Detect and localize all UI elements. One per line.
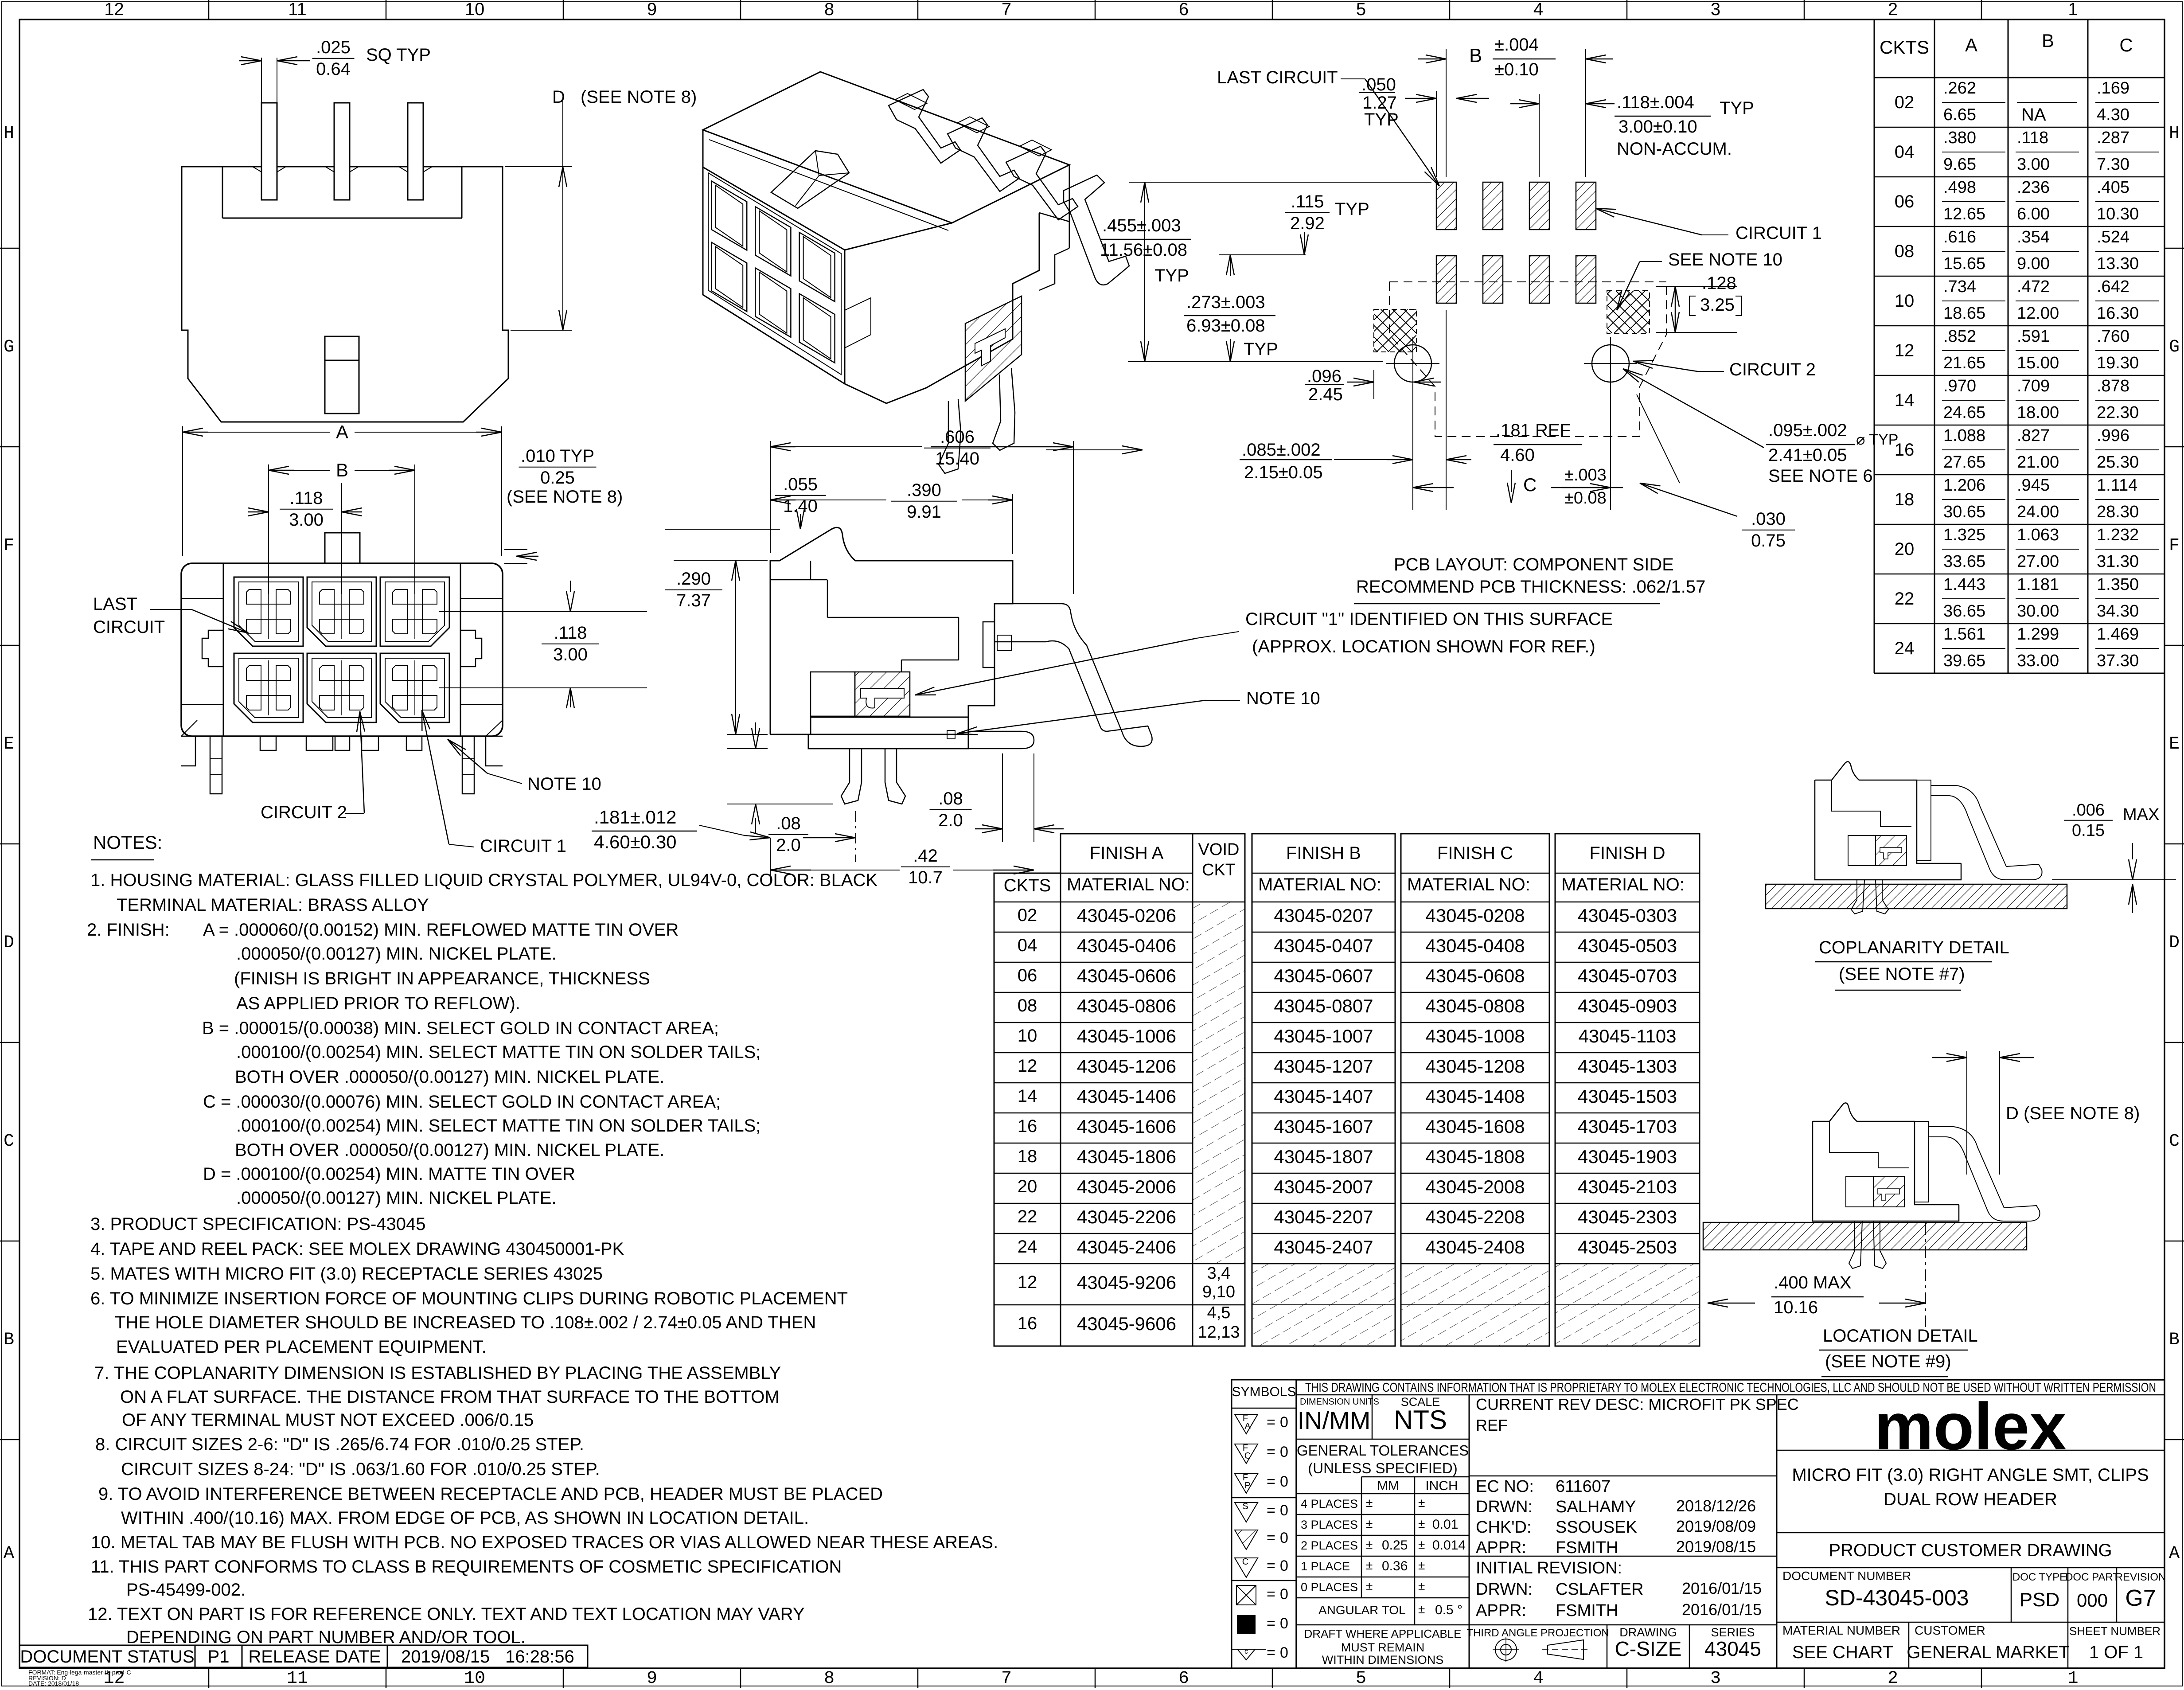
svg-text:1.206: 1.206 <box>1943 476 1985 495</box>
svg-text:NOTE 10: NOTE 10 <box>1246 689 1320 708</box>
pcb dimension .030/0.75 <box>1637 394 1795 550</box>
svg-text:6: 6 <box>1178 1669 1189 1688</box>
svg-text:11.56±0.08: 11.56±0.08 <box>1100 240 1187 260</box>
coplanarity detail title <box>1815 938 2009 990</box>
svg-text:8: 8 <box>824 0 834 19</box>
svg-text:2016/01/15: 2016/01/15 <box>1682 1600 1762 1619</box>
svg-text:=: = <box>1267 1414 1275 1431</box>
svg-text:3.00: 3.00 <box>553 645 588 664</box>
svg-text:43045-0608: 43045-0608 <box>1425 965 1525 986</box>
molex logo <box>1777 1389 2164 1464</box>
svg-text:9,10: 9,10 <box>1202 1283 1235 1301</box>
svg-text:.400 MAX: .400 MAX <box>1774 1273 1852 1292</box>
svg-text:C-SIZE: C-SIZE <box>1615 1637 1682 1660</box>
svg-text:9: 9 <box>647 0 657 19</box>
svg-text:43045-2008: 43045-2008 <box>1425 1176 1525 1197</box>
svg-text:A: A <box>4 1544 14 1564</box>
svg-text:6.65: 6.65 <box>1943 105 1976 124</box>
circuit 1 label pcb <box>1595 208 1822 243</box>
svg-text:CSLAFTER: CSLAFTER <box>1556 1580 1643 1599</box>
svg-text:H: H <box>4 124 14 144</box>
circuit 2 label pcb <box>1633 360 1816 379</box>
pcb dimension .115/2.92 typ <box>1219 192 1369 255</box>
svg-text:1.469: 1.469 <box>2097 625 2139 644</box>
svg-text:=: = <box>1267 1586 1275 1603</box>
svg-text:±: ± <box>1418 1558 1425 1572</box>
svg-text:PS-45499-002.: PS-45499-002. <box>126 1580 246 1600</box>
title block main frame <box>1296 1380 2164 1668</box>
svg-text:.616: .616 <box>1943 228 1976 246</box>
svg-text:E: E <box>2169 734 2180 754</box>
svg-text:B: B <box>2042 30 2054 51</box>
svg-text:±0.08: ±0.08 <box>1564 489 1607 507</box>
svg-text:43045-9606: 43045-9606 <box>1077 1313 1176 1334</box>
svg-text:MATERIAL NO:: MATERIAL NO: <box>1067 875 1190 894</box>
svg-text:02: 02 <box>1018 905 1037 925</box>
isometric front face step <box>845 298 871 348</box>
svg-text:22: 22 <box>1895 589 1915 609</box>
svg-text:0.5 °: 0.5 ° <box>1435 1603 1462 1617</box>
svg-text:43045-1806: 43045-1806 <box>1077 1146 1176 1167</box>
svg-text:43045-2006: 43045-2006 <box>1077 1176 1176 1197</box>
svg-text:CKTS: CKTS <box>1880 37 1929 58</box>
svg-text:1. HOUSING MATERIAL: GLASS F: 1. HOUSING MATERIAL: GLASS FILLED LIQUID… <box>90 870 877 890</box>
svg-text:28.30: 28.30 <box>2097 503 2139 521</box>
general tolerances table <box>1296 1442 1469 1667</box>
svg-text:16:28:56: 16:28:56 <box>505 1647 574 1667</box>
svg-text:D (SEE NOTE 8): D (SEE NOTE 8) <box>2006 1104 2140 1123</box>
svg-text:1: 1 <box>2067 1669 2078 1688</box>
svg-text:43045-9206: 43045-9206 <box>1077 1272 1176 1293</box>
svg-text:±: ± <box>1366 1496 1373 1510</box>
svg-text:43045-1407: 43045-1407 <box>1274 1086 1373 1107</box>
svg-text:10.7: 10.7 <box>908 868 943 887</box>
svg-text:30.65: 30.65 <box>1943 503 1985 521</box>
front view dimension A <box>183 422 502 556</box>
svg-text:±: ± <box>1418 1538 1425 1551</box>
svg-text:INITIAL REVISION:: INITIAL REVISION: <box>1476 1559 1622 1577</box>
svg-text:04: 04 <box>1895 142 1915 162</box>
svg-text:A: A <box>1965 35 1977 55</box>
svg-text:.006: .006 <box>2072 801 2105 820</box>
svg-text:SEE CHART: SEE CHART <box>1792 1643 1893 1662</box>
svg-text:CUSTOMER: CUSTOMER <box>1915 1624 1985 1637</box>
top view polarization key <box>325 336 359 414</box>
svg-text:43045-1503: 43045-1503 <box>1578 1086 1677 1107</box>
svg-text:20: 20 <box>1018 1177 1037 1196</box>
svg-text:43045-2408: 43045-2408 <box>1425 1237 1525 1257</box>
svg-text:6: 6 <box>1179 0 1189 19</box>
svg-text:.08: .08 <box>938 789 963 808</box>
pcb dimension .096/2.45 <box>1305 367 1441 404</box>
svg-text:0: 0 <box>1280 1444 1288 1460</box>
svg-text:MICRO FIT (3.0) RIGHT ANGLE SM: MICRO FIT (3.0) RIGHT ANGLE SMT, CLIPS <box>1792 1465 2149 1485</box>
svg-text:.455±.003: .455±.003 <box>1102 216 1181 235</box>
coplanarity detail connector <box>1815 761 2042 914</box>
svg-text:±: ± <box>1418 1496 1425 1510</box>
svg-text:04: 04 <box>1018 936 1037 955</box>
svg-text:LOCATION DETAIL: LOCATION DETAIL <box>1823 1326 1978 1346</box>
svg-text:18: 18 <box>1018 1147 1037 1166</box>
svg-text:±: ± <box>1418 1602 1425 1616</box>
svg-text:C = .000030/(0.00076) MIN. SEL: C = .000030/(0.00076) MIN. SELECT GOLD I… <box>203 1092 721 1112</box>
svg-text:C: C <box>1244 1451 1251 1461</box>
svg-text:.025: .025 <box>316 38 351 57</box>
front view dimension .118/3.00 top <box>248 483 362 594</box>
svg-text:1.40: 1.40 <box>783 496 818 516</box>
svg-text:.591: .591 <box>2017 327 2050 346</box>
svg-text:WITHIN .400/(10.16) MAX. FROM: WITHIN .400/(10.16) MAX. FROM EDGE OF PC… <box>121 1508 809 1528</box>
svg-text:16: 16 <box>1018 1314 1037 1333</box>
svg-text:6.93±0.08: 6.93±0.08 <box>1186 316 1265 336</box>
svg-text:.852: .852 <box>1943 327 1976 346</box>
pcb layout connector outline dashed <box>1389 282 1666 437</box>
svg-text:9.00: 9.00 <box>2017 254 2050 273</box>
svg-text:OF ANY TERMINAL MUST NOT EXCEE: OF ANY TERMINAL MUST NOT EXCEED .006/0.1… <box>122 1410 534 1430</box>
svg-text:RECOMMEND PCB THICKNESS: .062/: RECOMMEND PCB THICKNESS: .062/1.57 <box>1356 577 1705 597</box>
svg-text:.354: .354 <box>2017 228 2050 246</box>
svg-text:.262: .262 <box>1943 79 1976 98</box>
svg-text:±: ± <box>1366 1558 1373 1572</box>
svg-text:=: = <box>1267 1557 1275 1574</box>
svg-text:MATERIAL NO:: MATERIAL NO: <box>1561 875 1685 894</box>
svg-text:43045-1808: 43045-1808 <box>1425 1146 1525 1167</box>
document number cells <box>1777 1568 2166 1622</box>
svg-text:43045-1807: 43045-1807 <box>1274 1146 1373 1167</box>
svg-text:10: 10 <box>1018 1026 1037 1046</box>
svg-text:3: 3 <box>1710 1669 1721 1688</box>
svg-text:B: B <box>1469 45 1482 66</box>
svg-text:8: 8 <box>824 1669 835 1688</box>
svg-text:DOCUMENT STATUS: DOCUMENT STATUS <box>20 1647 194 1667</box>
svg-text:43045: 43045 <box>1704 1637 1761 1660</box>
isometric polarization wedge <box>771 151 849 208</box>
svg-text:SQ TYP: SQ TYP <box>366 45 431 65</box>
svg-text:(UNLESS SPECIFIED): (UNLESS SPECIFIED) <box>1308 1460 1457 1476</box>
svg-text:20: 20 <box>1895 539 1915 559</box>
svg-text:PRODUCT CUSTOMER DRAWING: PRODUCT CUSTOMER DRAWING <box>1829 1541 2112 1560</box>
svg-text:43045-2206: 43045-2206 <box>1077 1206 1176 1227</box>
svg-text:NOTE 10: NOTE 10 <box>527 774 601 794</box>
svg-text:1: 1 <box>2068 0 2078 19</box>
svg-text:1.232: 1.232 <box>2097 526 2139 544</box>
svg-text:14: 14 <box>1018 1086 1037 1106</box>
svg-text:12.65: 12.65 <box>1943 205 1985 223</box>
svg-text:DATE: 2018/01/18: DATE: 2018/01/18 <box>28 1680 79 1687</box>
svg-text:2.15±0.05: 2.15±0.05 <box>1244 463 1323 482</box>
pcb dimension .181 REF/4.60 <box>1494 421 1582 503</box>
svg-text:2019/08/15: 2019/08/15 <box>1676 1538 1756 1556</box>
svg-text:C: C <box>2119 35 2133 55</box>
svg-text:CIRCUIT: CIRCUIT <box>93 617 165 637</box>
svg-text:43045-1608: 43045-1608 <box>1425 1116 1525 1137</box>
svg-text:CHK'D:: CHK'D: <box>1476 1518 1532 1537</box>
svg-text:43045-1007: 43045-1007 <box>1274 1026 1373 1046</box>
svg-text:AS APPLIED PRIOR TO REFLOW).: AS APPLIED PRIOR TO REFLOW). <box>236 994 520 1013</box>
svg-text:24: 24 <box>1018 1237 1037 1257</box>
svg-text:.118: .118 <box>2017 129 2048 147</box>
svg-text:EVALUATED PER PLACEMENT EQUIPM: EVALUATED PER PLACEMENT EQUIPMENT. <box>116 1337 487 1357</box>
svg-text:FINISH A: FINISH A <box>1090 843 1164 863</box>
pcb dimension C extension <box>1610 384 1611 510</box>
svg-text:2: 2 <box>1888 1669 1898 1688</box>
location detail title <box>1819 1326 1978 1377</box>
isometric cavities <box>711 181 835 363</box>
svg-text:5: 5 <box>1356 0 1366 19</box>
svg-text:.760: .760 <box>2097 327 2129 346</box>
svg-text:0: 0 <box>1280 1473 1288 1490</box>
side view dimension .606/15.40 <box>770 427 1073 594</box>
dimension D (SEE NOTE 8) top view <box>505 87 697 330</box>
svg-text:2.0: 2.0 <box>938 811 963 830</box>
svg-text:B: B <box>2169 1330 2180 1350</box>
side view dimension .08/2.0 left <box>727 722 833 855</box>
svg-text:36.65: 36.65 <box>1943 602 1985 621</box>
svg-text:0: 0 <box>1280 1414 1288 1431</box>
svg-text:4.30: 4.30 <box>2097 105 2129 124</box>
svg-text:(SEE NOTE #9): (SEE NOTE #9) <box>1825 1352 1951 1371</box>
pcb dimension .118 +-.004 TYP NON-ACCUM <box>1510 93 1754 177</box>
pcb layout mounting hole left <box>1386 337 1439 390</box>
svg-text:THIRD ANGLE PROJECTION: THIRD ANGLE PROJECTION <box>1466 1627 1609 1639</box>
svg-text:NON-ACCUM.: NON-ACCUM. <box>1617 139 1732 159</box>
svg-text:7.37: 7.37 <box>676 591 711 610</box>
svg-text:P1: P1 <box>208 1647 230 1667</box>
svg-text:12: 12 <box>1018 1272 1037 1292</box>
svg-text:±: ± <box>1366 1517 1373 1530</box>
svg-text:B = .000015/(0.00038) MIN. SEL: B = .000015/(0.00038) MIN. SELECT GOLD I… <box>202 1019 719 1038</box>
svg-text:5: 5 <box>1356 1669 1366 1688</box>
svg-text:2019/08/15: 2019/08/15 <box>401 1647 490 1667</box>
svg-text:7: 7 <box>1002 0 1011 19</box>
svg-text:G: G <box>4 337 14 357</box>
svg-text:43045-0808: 43045-0808 <box>1425 995 1525 1016</box>
svg-text:DOC TYPE: DOC TYPE <box>2012 1571 2067 1583</box>
svg-text:FSMITH: FSMITH <box>1556 1601 1618 1620</box>
svg-text:.827: .827 <box>2017 426 2050 445</box>
svg-text:.878: .878 <box>2097 377 2129 395</box>
pcb dimension .128 / 3.25 <box>1656 273 1742 332</box>
svg-text:.095±.002: .095±.002 <box>1768 421 1847 440</box>
svg-text:12,13: 12,13 <box>1197 1323 1240 1342</box>
svg-text:43045-2208: 43045-2208 <box>1425 1206 1525 1227</box>
material number / customer / sheet cells <box>1782 1622 2161 1668</box>
svg-text:2. FINISH:: 2. FINISH: <box>87 920 170 940</box>
isometric view housing box <box>703 72 1069 403</box>
svg-text:43045-0806: 43045-0806 <box>1077 995 1176 1016</box>
svg-text:FINISH C: FINISH C <box>1437 843 1513 863</box>
svg-text:SEE NOTE 10: SEE NOTE 10 <box>1668 250 1782 269</box>
svg-text:BOTH OVER .000050/(0.00127) MI: BOTH OVER .000050/(0.00127) MIN. NICKEL … <box>235 1140 664 1160</box>
side view dimension .181/4.60 <box>592 807 855 862</box>
svg-text:=: = <box>1267 1444 1275 1460</box>
svg-text:1.325: 1.325 <box>1943 526 1985 544</box>
svg-text:3: 3 <box>1711 0 1720 19</box>
svg-text:.945: .945 <box>2017 476 2050 495</box>
svg-text:19.30: 19.30 <box>2097 354 2139 372</box>
CKTS dimension table <box>1874 20 2164 673</box>
svg-text:TYP: TYP <box>1244 340 1278 359</box>
svg-text:7. THE COPLANARITY DIMENSION: 7. THE COPLANARITY DIMENSION IS ESTABLIS… <box>94 1363 781 1383</box>
svg-text:43045-0406: 43045-0406 <box>1077 935 1176 956</box>
isometric top face pin slots <box>895 94 1052 156</box>
side view right angle smt clip <box>983 604 1152 746</box>
pcb dimension .273 typ <box>1184 255 1278 362</box>
svg-text:22: 22 <box>1018 1207 1037 1226</box>
see note 10 label pcb <box>1617 250 1782 310</box>
svg-text:REF: REF <box>1476 1416 1508 1434</box>
svg-text:12: 12 <box>1895 341 1915 360</box>
revision and approvals block <box>1469 1395 1799 1625</box>
svg-text:TYP: TYP <box>1154 266 1189 285</box>
front view dimension .118/3.00 right <box>439 581 647 708</box>
svg-text:.010 TYP: .010 TYP <box>521 446 594 466</box>
svg-text:RELEASE DATE: RELEASE DATE <box>248 1647 381 1667</box>
svg-text:13.30: 13.30 <box>2097 254 2139 273</box>
coplanarity detail pcb <box>1766 884 2067 909</box>
svg-text:16: 16 <box>1018 1116 1037 1136</box>
svg-text:4.60±0.30: 4.60±0.30 <box>594 831 677 852</box>
svg-text:WITHIN DIMENSIONS: WITHIN DIMENSIONS <box>1322 1653 1444 1667</box>
svg-text:12. TEXT ON PART IS FOR REFERE: 12. TEXT ON PART IS FOR REFERENCE ONLY. … <box>88 1604 805 1624</box>
svg-text:43045-1606: 43045-1606 <box>1077 1116 1176 1137</box>
pcb layout pads row 2 <box>1436 256 1596 303</box>
svg-text:MAX: MAX <box>2123 805 2159 824</box>
svg-text:12: 12 <box>104 0 124 19</box>
svg-text:DRWN:: DRWN: <box>1476 1580 1533 1599</box>
svg-text:3 PLACES: 3 PLACES <box>1301 1518 1358 1531</box>
svg-text:.734: .734 <box>1943 277 1976 296</box>
svg-text:2018/12/26: 2018/12/26 <box>1676 1497 1756 1515</box>
svg-text:02: 02 <box>1895 93 1915 112</box>
svg-text:.030: .030 <box>1751 509 1786 529</box>
svg-text:2.41±0.05: 2.41±0.05 <box>1768 445 1847 465</box>
svg-text:43045-2103: 43045-2103 <box>1578 1176 1677 1197</box>
svg-text:NA: NA <box>2021 105 2046 125</box>
svg-text:43045-1408: 43045-1408 <box>1425 1086 1525 1107</box>
svg-text:43045-1207: 43045-1207 <box>1274 1056 1373 1077</box>
svg-text:.236: .236 <box>2017 178 2050 197</box>
svg-text:1.299: 1.299 <box>2017 625 2059 644</box>
svg-text:±: ± <box>1418 1579 1425 1593</box>
svg-text:9.65: 9.65 <box>1943 155 1976 174</box>
svg-text:611607: 611607 <box>1556 1477 1611 1496</box>
svg-text:.118: .118 <box>290 488 323 508</box>
svg-text:±.003: ±.003 <box>1564 466 1607 484</box>
svg-text:A: A <box>2169 1544 2180 1564</box>
svg-text:43045-2407: 43045-2407 <box>1274 1237 1373 1257</box>
side view metal clip hatched section <box>811 672 910 716</box>
pcb layout metal tab area left <box>1374 309 1416 352</box>
svg-text:D = .000100/(0.00254) MIN. MAT: D = .000100/(0.00254) MIN. MATTE TIN OVE… <box>203 1164 575 1184</box>
svg-text:33.00: 33.00 <box>2017 652 2059 670</box>
svg-text:39.65: 39.65 <box>1943 652 1985 670</box>
svg-text:3.00±0.10: 3.00±0.10 <box>1618 117 1697 137</box>
isometric bottom legs <box>939 368 1015 473</box>
svg-text:P: P <box>1244 1481 1250 1491</box>
svg-text:43045-0807: 43045-0807 <box>1274 995 1373 1016</box>
svg-text:FSMITH: FSMITH <box>1556 1538 1618 1557</box>
svg-text:1.114: 1.114 <box>2097 476 2137 495</box>
svg-text:0.25: 0.25 <box>540 468 575 488</box>
svg-text:06: 06 <box>1018 966 1037 985</box>
svg-text:43045-1103: 43045-1103 <box>1578 1026 1676 1046</box>
svg-text:E: E <box>4 734 14 754</box>
svg-text:DEPENDING ON PART NUMBER AND/O: DEPENDING ON PART NUMBER AND/OR TOOL. <box>126 1628 526 1647</box>
pcb dimension .095 hole dia <box>1623 369 1898 486</box>
svg-text:TYP: TYP <box>1720 98 1754 118</box>
svg-text:PSD: PSD <box>2020 1589 2059 1611</box>
format revision stamp <box>28 1669 131 1687</box>
svg-text:000: 000 <box>2077 1590 2108 1611</box>
front view solder tails and clips <box>181 720 503 794</box>
svg-text:27.00: 27.00 <box>2017 552 2059 571</box>
svg-text:.970: .970 <box>1943 377 1976 395</box>
svg-text:CIRCUIT 1: CIRCUIT 1 <box>1735 223 1822 243</box>
svg-text:2.45: 2.45 <box>1308 385 1343 404</box>
svg-text:43045-1006: 43045-1006 <box>1077 1026 1176 1046</box>
svg-text:PCB LAYOUT: COMPONENT SIDE: PCB LAYOUT: COMPONENT SIDE <box>1394 555 1674 574</box>
pcb dimension B +-.004 <box>1418 35 1613 177</box>
svg-text:1.443: 1.443 <box>1943 575 1985 594</box>
pcb layout pads row 1 <box>1436 182 1596 230</box>
svg-text:COPLANARITY DETAIL: COPLANARITY DETAIL <box>1819 938 2009 957</box>
svg-text:3.00: 3.00 <box>2017 155 2050 174</box>
svg-text:B: B <box>4 1330 14 1350</box>
svg-text:molex: molex <box>1874 1389 2067 1464</box>
svg-text:(SEE NOTE #7): (SEE NOTE #7) <box>1839 964 1965 984</box>
svg-text:06: 06 <box>1895 192 1915 211</box>
svg-text:⌀ TYP: ⌀ TYP <box>1856 431 1898 448</box>
svg-text:0.64: 0.64 <box>316 59 351 79</box>
svg-text:43045-0606: 43045-0606 <box>1077 965 1176 986</box>
svg-text:4,5: 4,5 <box>1207 1304 1231 1322</box>
circuit 2 label front view <box>261 711 365 822</box>
svg-text:DUAL ROW HEADER: DUAL ROW HEADER <box>1884 1490 2057 1509</box>
side view dimension .08/2.0 right <box>930 753 1064 842</box>
svg-text:.42: .42 <box>913 846 938 866</box>
svg-text:7.30: 7.30 <box>2097 155 2129 174</box>
svg-text:0: 0 <box>1280 1615 1288 1632</box>
svg-text:6. TO MINIMIZE INSERTION FORC: 6. TO MINIMIZE INSERTION FORCE OF MOUNTI… <box>90 1289 848 1308</box>
svg-text:0: 0 <box>1280 1557 1288 1574</box>
svg-text:±0.10: ±0.10 <box>1494 60 1539 79</box>
svg-text:DIMENSION UNITS: DIMENSION UNITS <box>1300 1397 1379 1407</box>
svg-text:4. TAPE AND REEL PACK: SEE MO: 4. TAPE AND REEL PACK: SEE MOLEX DRAWING… <box>90 1239 624 1259</box>
svg-text:ON A FLAT SURFACE. THE DISTAN: ON A FLAT SURFACE. THE DISTANCE FROM THA… <box>120 1387 780 1407</box>
svg-text:08: 08 <box>1895 242 1915 261</box>
svg-text:9.91: 9.91 <box>907 502 941 522</box>
svg-text:5. MATES WITH MICRO FIT (3.0): 5. MATES WITH MICRO FIT (3.0) RECEPTACLE… <box>90 1264 603 1284</box>
svg-text:C: C <box>2169 1132 2180 1151</box>
svg-text:3. PRODUCT SPECIFICATION: PS: 3. PRODUCT SPECIFICATION: PS-43045 <box>90 1214 426 1234</box>
pcb layout mounting hole right <box>1584 337 1637 390</box>
circuit 1 label front view <box>422 710 566 856</box>
svg-text:3.00: 3.00 <box>289 510 324 530</box>
svg-text:.996: .996 <box>2097 426 2129 445</box>
svg-text:43045-1903: 43045-1903 <box>1578 1146 1677 1167</box>
front view dimension .010 TYP 0.25 (SEE NOTE 8) <box>504 446 623 563</box>
svg-text:SYMBOLS: SYMBOLS <box>1232 1385 1296 1399</box>
coplanarity dimension .006/0.15 MAX <box>2052 801 2176 913</box>
svg-text:11: 11 <box>287 1669 308 1688</box>
svg-text:.08: .08 <box>776 814 801 833</box>
svg-text:CKTS: CKTS <box>1004 876 1051 895</box>
svg-text:D: D <box>4 933 14 953</box>
side view dimension .290/7.37 <box>665 560 768 734</box>
svg-text:±: ± <box>1418 1517 1425 1530</box>
svg-text:2016/01/15: 2016/01/15 <box>1682 1579 1762 1597</box>
